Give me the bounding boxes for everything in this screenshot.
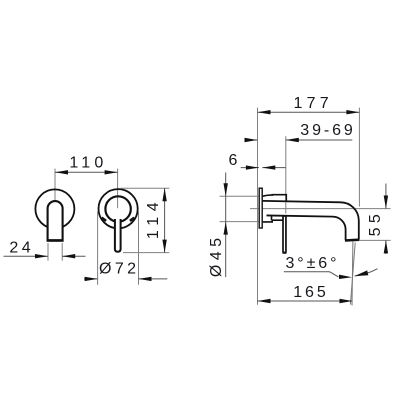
angle leader line (284, 272, 339, 277)
dim 6 line (241, 167, 259, 169)
dim O45 line (225, 173, 227, 278)
angle arc right (355, 269, 378, 276)
lever ext line (285, 136, 287, 213)
arrow O72 left (85, 277, 98, 281)
svg-text:165: 165 (293, 284, 328, 301)
stem of right figure (115, 219, 121, 252)
dim 110 line (55, 171, 118, 173)
dim 177 line (258, 111, 360, 113)
svg-text:Ø45: Ø45 (208, 233, 225, 277)
angle arrow left (339, 275, 352, 279)
spout escutcheon outer circle (99, 189, 138, 228)
valve housing bottom edge (263, 220, 283, 222)
dim 24 ext lines (47, 243, 49, 261)
dash mark lower-right (130, 218, 134, 221)
55 bottom ext line (360, 239, 391, 241)
arrow 110 left (55, 170, 68, 174)
svg-text:3°±6°: 3°±6° (286, 255, 340, 272)
handle lever (pill) (48, 201, 63, 240)
spout centerline / 55 top ext (250, 208, 391, 210)
arrow 110 right (105, 170, 118, 174)
spout end ext line (358, 108, 360, 207)
svg-text:110: 110 (69, 154, 107, 171)
dim O72 ext lines (97, 211, 99, 285)
lever side view (283, 216, 286, 253)
arrow 114 bottom (162, 240, 166, 253)
spout inner circle (bold) (105, 196, 130, 221)
svg-text:Ø72: Ø72 (99, 260, 139, 277)
arrow 24 right (62, 254, 75, 258)
valve housing top edge (263, 195, 287, 202)
centerline right circle (117, 169, 119, 209)
lever bottom bold edge (283, 252, 287, 254)
wall plate (259, 188, 262, 228)
dim O72 line (84, 278, 98, 280)
step under tube (271, 216, 273, 221)
svg-text:177: 177 (294, 95, 333, 112)
arrow 55 top (384, 196, 388, 209)
arrow 114 top (162, 188, 166, 201)
svg-text:24: 24 (9, 239, 34, 256)
dim 39-69 line (245, 139, 258, 141)
svg-text:114: 114 (145, 197, 162, 239)
arrow 39-69 left (245, 138, 258, 142)
spout outlet bold bar (345, 238, 360, 241)
arrow 55 bottom (384, 240, 388, 253)
svg-text:6: 6 (229, 152, 241, 169)
spout tube bottom outline (267, 215, 346, 239)
arrow O45 top (224, 183, 228, 196)
wall reference ext line (257, 108, 259, 305)
spout tube top outline (263, 201, 359, 240)
svg-text:39-69: 39-69 (300, 122, 355, 139)
arrow 165 left (258, 299, 271, 303)
handle escutcheon circle (35, 189, 74, 228)
arrow 24 left (35, 254, 48, 258)
dim 55 line (385, 184, 387, 209)
centerline left circle (54, 169, 56, 209)
svg-text:55: 55 (367, 210, 384, 237)
arrow 6 left (246, 165, 259, 169)
arrow O45 bottom (224, 222, 228, 235)
lever bottom bold edge (47, 239, 64, 242)
arrow O72 right (139, 277, 152, 281)
stream angled line (350, 243, 355, 305)
dim 114 ext bottom (123, 252, 169, 254)
arrow 39-69 right (286, 138, 299, 142)
stream vertical ext (165 right) (351, 242, 354, 306)
arrow 6 right (262, 165, 275, 169)
angle arrow right (354, 270, 368, 276)
arrow 177 left (258, 110, 271, 114)
arrow 165 right (340, 299, 353, 303)
dash mark lower-left (102, 218, 106, 221)
dim 165 line (258, 300, 353, 302)
arrow 177 right (346, 110, 359, 114)
dim 24 line (4, 255, 49, 257)
dim 114 line (164, 188, 166, 252)
dim O45 ext lines (220, 195, 259, 197)
dim 114 ext top (121, 187, 170, 189)
